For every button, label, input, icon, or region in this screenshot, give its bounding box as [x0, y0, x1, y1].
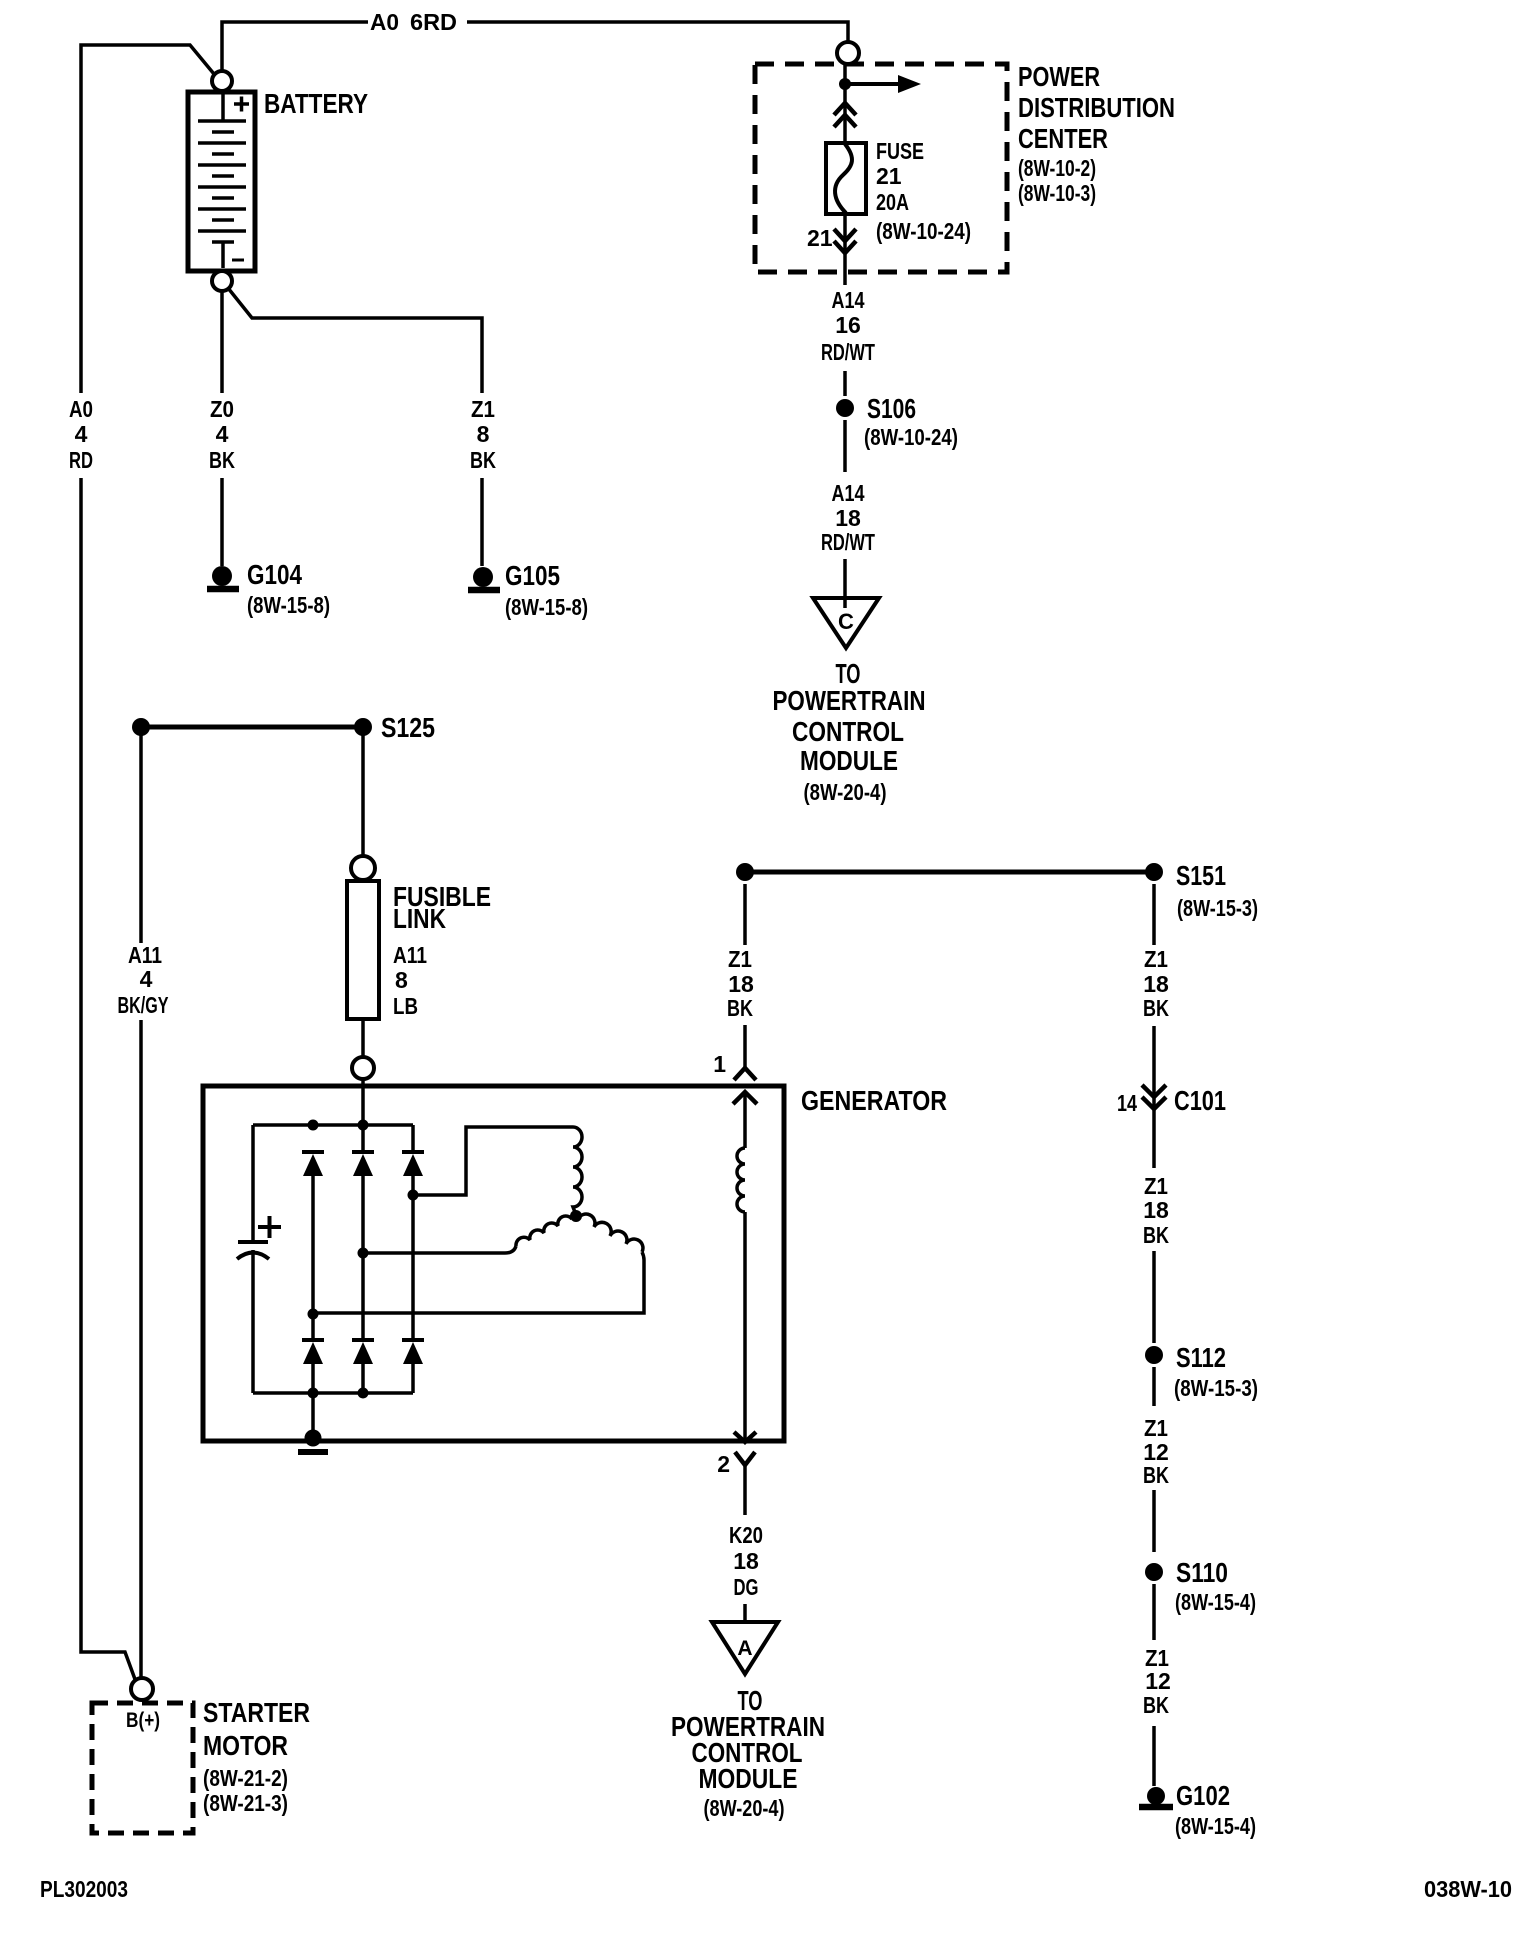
capacitor plus sign [258, 1216, 281, 1238]
splice S112 [1145, 1346, 1163, 1364]
svg-text:2: 2 [717, 1451, 730, 1477]
svg-text:S106: S106 [867, 393, 916, 424]
wire above G102 [1152, 1726, 1156, 1786]
svg-text:(8W-21-3): (8W-21-3) [203, 1790, 288, 1816]
junction dot rail-col1 bottom [308, 1388, 319, 1399]
stator winding B coil [516, 1216, 572, 1246]
svg-text:BK: BK [1143, 1692, 1169, 1718]
svg-text:A0: A0 [69, 396, 93, 422]
svg-text:MODULE: MODULE [800, 745, 898, 776]
wire PDC feed (circle to fuse) [843, 64, 847, 143]
svg-text:4: 4 [216, 421, 229, 447]
connector C101 chevrons [1142, 1085, 1166, 1109]
svg-text:A14: A14 [832, 287, 865, 313]
svg-text:038W-10: 038W-10 [1424, 1876, 1512, 1902]
B+ rail top [253, 1123, 413, 1127]
wire col3 mid [411, 1176, 415, 1340]
fusible link body [347, 881, 379, 1019]
splice S125 dot [354, 718, 372, 736]
svg-text:(8W-20-4): (8W-20-4) [704, 1795, 785, 1821]
svg-text:Z1: Z1 [1144, 946, 1168, 972]
pin 1 connector chevron outside [734, 1068, 756, 1080]
svg-text:BK: BK [1143, 1462, 1169, 1488]
wire to off-page connector C [843, 559, 847, 608]
diode D1 top (col x=313) [302, 1150, 324, 1154]
svg-text:MOTOR: MOTOR [203, 1730, 288, 1761]
svg-text:Z0: Z0 [210, 396, 234, 422]
ground rail bottom [253, 1391, 413, 1395]
wire above S110 [1152, 1490, 1156, 1552]
svg-text:RD/WT: RD/WT [821, 339, 875, 365]
ground G102 [1147, 1787, 1165, 1805]
svg-text:18: 18 [728, 971, 754, 997]
junction dot phase C tap [308, 1309, 319, 1320]
generator case ground [305, 1430, 322, 1447]
wire A11 4 BK/GY (to starter) [139, 735, 143, 1678]
svg-text:Z1: Z1 [1144, 1415, 1168, 1441]
battery cell plates [198, 121, 246, 242]
svg-text:RD/WT: RD/WT [821, 529, 875, 555]
battery plus sign [234, 97, 249, 112]
splice S106 [836, 399, 854, 417]
svg-text:12: 12 [1145, 1668, 1171, 1694]
battery internal minus stub [221, 242, 225, 268]
svg-text:G105: G105 [505, 560, 560, 591]
svg-text:BK: BK [1143, 995, 1169, 1021]
svg-text:G102: G102 [1176, 1780, 1230, 1811]
ground G104 [212, 566, 232, 586]
svg-text:A11: A11 [128, 942, 162, 968]
starter terminal circle [131, 1678, 153, 1700]
svg-text:(8W-10-24): (8W-10-24) [876, 218, 971, 244]
splice line S125 [141, 725, 363, 730]
wire Z0 4 BK (battery - to G104) [220, 291, 224, 566]
svg-text:Z1: Z1 [728, 946, 752, 972]
generator box [203, 1086, 784, 1441]
svg-text:CENTER: CENTER [1018, 123, 1108, 154]
diode D4 bottom (col x=313) [302, 1338, 324, 1342]
diode D5 bottom (col x=363) [352, 1338, 374, 1342]
svg-text:21: 21 [807, 225, 833, 251]
svg-text:BK: BK [1143, 1222, 1169, 1248]
stator phase B wire [363, 1246, 516, 1253]
svg-text:16: 16 [835, 312, 861, 338]
stator winding C coil [578, 1214, 643, 1252]
svg-text:FUSE: FUSE [876, 138, 924, 164]
svg-text:CONTROL: CONTROL [792, 716, 904, 747]
svg-text:POWER: POWER [1018, 61, 1100, 92]
stator phase A wire [413, 1127, 573, 1195]
pin 2 connector Y outside [735, 1452, 755, 1465]
svg-text:4: 4 [75, 421, 88, 447]
svg-text:Z1: Z1 [471, 396, 495, 422]
connector chevrons up (fuse cavity) [834, 103, 856, 127]
fuse 21 20A body [826, 143, 866, 214]
svg-text:(8W-15-8): (8W-15-8) [505, 594, 588, 620]
svg-text:GENERATOR: GENERATOR [801, 1085, 947, 1116]
svg-text:BK: BK [209, 447, 235, 473]
svg-text:(8W-10-3): (8W-10-3) [1018, 180, 1096, 206]
wire below S112 [1152, 1367, 1156, 1406]
off-page connector triangle C [813, 598, 879, 648]
svg-text:BK: BK [727, 995, 753, 1021]
splice S151 dot [1145, 863, 1163, 881]
pin 2 connector chevron inside [734, 1432, 756, 1442]
svg-text:21: 21 [876, 163, 902, 189]
junction dot PDC [839, 78, 851, 90]
field winding wire top [743, 1092, 747, 1148]
svg-text:BATTERY: BATTERY [264, 88, 368, 119]
svg-text:LB: LB [393, 993, 418, 1019]
svg-text:A: A [737, 1637, 752, 1660]
stator wye center dot [570, 1210, 582, 1222]
svg-text:S151: S151 [1176, 860, 1226, 891]
svg-text:6RD: 6RD [410, 9, 457, 35]
svg-text:MODULE: MODULE [699, 1763, 798, 1794]
svg-text:4: 4 [140, 966, 153, 992]
connector chevrons down (pin 21) [834, 229, 856, 253]
svg-text:(8W-15-4): (8W-15-4) [1175, 1813, 1256, 1839]
wire S125 to fusible link [361, 735, 365, 856]
PDC terminal circle [837, 42, 859, 64]
diode D6 bottom (col x=413) [402, 1338, 424, 1342]
ground G105 [473, 567, 493, 587]
svg-text:POWERTRAIN: POWERTRAIN [773, 685, 926, 716]
junction dot rail-col1 [308, 1120, 319, 1131]
diode D3 top (col x=413) [402, 1150, 424, 1154]
wire col1 lower [311, 1364, 315, 1393]
battery B1 body [188, 92, 255, 271]
power distribution center dashed box [755, 64, 1007, 272]
svg-text:A0: A0 [370, 9, 399, 35]
capacitor branch wire [251, 1125, 255, 1393]
svg-text:A14: A14 [832, 480, 865, 506]
svg-text:A11: A11 [393, 942, 427, 968]
wire K20 18 DG (gen pin 2 down) [743, 1465, 747, 1622]
wire col1 mid [311, 1176, 315, 1340]
svg-text:(8W-15-3): (8W-15-3) [1177, 895, 1258, 921]
diode D2 top (col x=363) [352, 1150, 374, 1154]
svg-text:RD: RD [69, 447, 93, 473]
generator terminal circle [352, 1057, 374, 1079]
svg-text:S112: S112 [1176, 1342, 1226, 1373]
svg-text:18: 18 [835, 505, 861, 531]
stator winding A coil [573, 1127, 582, 1215]
field winding (rotor) coil [737, 1148, 745, 1212]
wire above S106 [843, 371, 847, 396]
svg-text:G104: G104 [247, 559, 302, 590]
battery internal plus stub [221, 94, 225, 121]
svg-text:S125: S125 [381, 712, 435, 743]
svg-text:BK/GY: BK/GY [118, 992, 169, 1018]
svg-text:20A: 20A [876, 189, 909, 215]
svg-text:(8W-15-4): (8W-15-4) [1175, 1589, 1256, 1615]
svg-text:LINK: LINK [393, 903, 446, 934]
ground stub wire [311, 1393, 315, 1432]
svg-text:(8W-21-2): (8W-21-2) [203, 1765, 288, 1791]
wire B+ into generator [361, 1079, 365, 1152]
svg-text:Z1: Z1 [1144, 1173, 1168, 1199]
splice S110 [1145, 1563, 1163, 1581]
wire A0 6RD (battery + to PDC, top) [222, 22, 848, 71]
wire col3 lower [411, 1364, 415, 1393]
svg-text:18: 18 [733, 1548, 759, 1574]
battery minus sign [232, 259, 244, 262]
wire A0 4 RD (battery + to starter, left edge) [81, 45, 214, 1682]
svg-text:DISTRIBUTION: DISTRIBUTION [1018, 92, 1175, 123]
field winding wire bottom [743, 1212, 747, 1441]
wire col3 upper [411, 1125, 415, 1152]
stator phase C wire [313, 1252, 644, 1313]
junction dot phase A tap [408, 1190, 419, 1201]
wire Z1 8 BK (battery - to G105) [228, 288, 482, 566]
svg-text:K20: K20 [729, 1522, 763, 1548]
wire Z1 18 BK (S151 to gen pin 1) [743, 884, 747, 1068]
svg-text:8: 8 [477, 421, 490, 447]
junction dot rail-col2 bottom [358, 1388, 369, 1399]
wire fusible link to generator [361, 1019, 365, 1056]
off-page connector triangle A [712, 1622, 778, 1674]
svg-text:(8W-10-2): (8W-10-2) [1018, 155, 1096, 181]
fuse element wave [835, 144, 852, 213]
wire below S110 [1152, 1584, 1156, 1640]
pin 1 connector chevron inside [733, 1092, 757, 1104]
svg-text:BK: BK [470, 447, 496, 473]
svg-text:DG: DG [734, 1574, 759, 1600]
starter motor dashed box [92, 1703, 193, 1833]
wire col2 lower [361, 1364, 365, 1393]
wire below S106 [843, 420, 847, 472]
svg-text:(8W-15-8): (8W-15-8) [247, 592, 330, 618]
junction dot left (gen pin1 branch) [736, 863, 754, 881]
svg-text:C101: C101 [1174, 1085, 1226, 1116]
fusible link terminal circle top [351, 856, 375, 880]
svg-text:(8W-10-24): (8W-10-24) [864, 424, 958, 450]
svg-text:C: C [838, 609, 854, 634]
svg-text:(8W-15-3): (8W-15-3) [1174, 1375, 1258, 1401]
svg-text:(8W-20-4): (8W-20-4) [804, 779, 887, 805]
splice line S151 [745, 870, 1154, 875]
wire Z1 18 BK (S151 to C101) [1152, 884, 1156, 1168]
junction dot rail-col2 [358, 1120, 369, 1131]
capacitor C (suppression) [238, 1240, 268, 1244]
svg-text:8: 8 [395, 967, 408, 993]
svg-text:14: 14 [1117, 1090, 1137, 1116]
wire col2 mid [361, 1176, 365, 1340]
svg-text:S110: S110 [1176, 1557, 1228, 1588]
battery positive terminal circle [212, 71, 232, 91]
wire above S112 [1152, 1251, 1156, 1343]
arrow to other circuits [845, 82, 898, 86]
svg-text:B(+): B(+) [126, 1709, 160, 1732]
svg-text:1: 1 [713, 1051, 726, 1077]
svg-text:18: 18 [1143, 1197, 1169, 1223]
wire fuse output [843, 214, 847, 285]
junction dot phase B tap [358, 1248, 369, 1259]
svg-text:PL302003: PL302003 [40, 1876, 128, 1902]
battery negative terminal circle [212, 271, 232, 291]
svg-text:STARTER: STARTER [203, 1697, 310, 1728]
junction dot left [132, 718, 150, 736]
svg-text:18: 18 [1143, 971, 1169, 997]
